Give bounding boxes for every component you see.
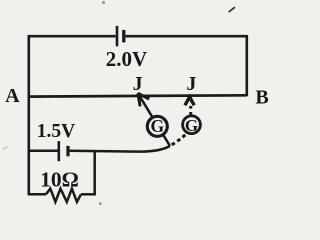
jockey lead shaft (solid, through left galvanometer) — [138, 94, 170, 146]
scan speck bottom left — [99, 202, 102, 205]
galvanometer G (right, dashed position) — [183, 116, 201, 134]
wire: top horizontal left segment — [28, 35, 116, 38]
svg-text:10Ω: 10Ω — [40, 167, 79, 191]
svg-text:G: G — [150, 116, 164, 136]
wire: resistor to right vertical — [81, 193, 96, 196]
battery B2 (1.5V cell) short plate — [66, 146, 69, 156]
wire: bottom left to resistor — [28, 193, 46, 196]
scan tick top right — [229, 8, 234, 12]
dashed lead above right galvanometer — [189, 106, 192, 115]
svg-text:G: G — [185, 116, 198, 135]
wire: right vertical — [246, 35, 249, 96]
wire: right vertical of resistor loop — [93, 151, 96, 195]
scan speck top left — [102, 1, 105, 4]
wire: top horizontal right segment — [126, 35, 248, 38]
svg-text:1.5V: 1.5V — [37, 121, 75, 142]
svg-text:J: J — [186, 73, 196, 95]
svg-text:B: B — [255, 87, 268, 109]
svg-text:2.0V: 2.0V — [106, 47, 147, 71]
battery B1 (2.0V cell) long plate — [116, 26, 119, 46]
wire: 1.5V branch, left of cell — [29, 150, 58, 153]
arrowhead at left J — [138, 93, 149, 99]
wire: from 1.5V cell sweeping up to jockey lead — [70, 146, 170, 152]
galvanometer G (left, solid position) — [147, 116, 167, 136]
arrowhead chevron at right J (dashed position) — [185, 97, 194, 105]
svg-text:J: J — [133, 73, 143, 95]
battery B1 (2.0V cell) short plate — [122, 30, 125, 43]
wire: left vertical (outer branch) — [27, 35, 30, 195]
battery B2 (1.5V cell) long plate — [57, 141, 60, 161]
scan faint dash left edge — [3, 147, 8, 150]
svg-text:A: A — [5, 85, 20, 107]
resistor R1 10 ohm zigzag — [46, 189, 81, 202]
dashed lead below right galvanometer to curve — [172, 134, 187, 145]
wire: slide wire from A to B — [28, 95, 247, 96]
